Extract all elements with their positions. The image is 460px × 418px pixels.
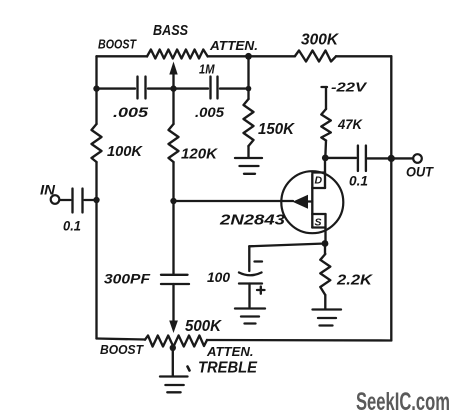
svg-text:ATTEN.: ATTEN. <box>206 344 254 359</box>
svg-text:300K: 300K <box>301 32 340 49</box>
svg-text:2.2K: 2.2K <box>336 273 374 289</box>
svg-text:500K: 500K <box>185 318 223 335</box>
svg-text:100K: 100K <box>107 143 143 160</box>
svg-text:120K: 120K <box>181 146 218 163</box>
svg-text:0.1: 0.1 <box>349 173 368 189</box>
svg-text:D: D <box>315 175 323 187</box>
svg-text:ATTEN.: ATTEN. <box>209 38 258 53</box>
svg-text:1M: 1M <box>199 63 215 77</box>
svg-text:TREBLE: TREBLE <box>198 360 258 377</box>
svg-text:BOOST: BOOST <box>98 38 137 52</box>
svg-text:150K: 150K <box>258 121 296 138</box>
svg-text:47K: 47K <box>337 116 363 132</box>
svg-text:S: S <box>315 217 322 229</box>
svg-text:.005: .005 <box>113 105 149 120</box>
svg-text:BOOST: BOOST <box>100 343 144 357</box>
svg-text:2N2843: 2N2843 <box>219 213 285 229</box>
svg-text:-22V: -22V <box>331 80 368 95</box>
svg-text:.005: .005 <box>195 105 225 120</box>
svg-text:300PF: 300PF <box>104 271 150 287</box>
svg-text:OUT: OUT <box>406 165 435 180</box>
svg-text:BASS: BASS <box>153 22 188 39</box>
svg-text:SeekIC.com: SeekIC.com <box>356 388 450 416</box>
svg-text:0.1: 0.1 <box>63 218 81 234</box>
svg-text:100: 100 <box>207 269 230 285</box>
svg-text:IN: IN <box>40 183 55 198</box>
